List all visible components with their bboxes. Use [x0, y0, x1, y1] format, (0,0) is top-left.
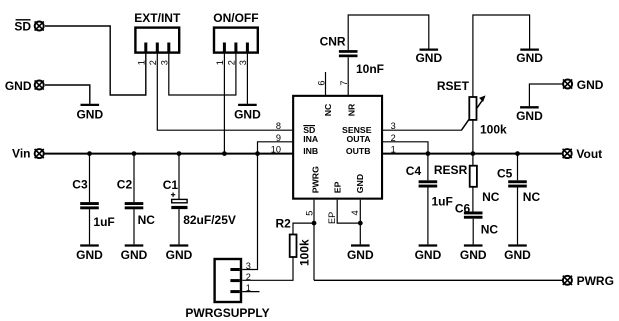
svg-text:2: 2	[391, 133, 396, 143]
resistor R2	[290, 235, 297, 258]
capacitor C2	[125, 202, 144, 205]
ground under C4	[419, 244, 438, 246]
svg-text:INB: INB	[303, 146, 318, 156]
svg-text:GND: GND	[121, 248, 148, 262]
svg-text:GND: GND	[460, 248, 487, 262]
wire C4 leads	[427, 154, 429, 245]
svg-text:5: 5	[304, 211, 314, 216]
junction Vin-C2	[132, 151, 137, 156]
svg-text:GND: GND	[355, 174, 365, 193]
svg-text:C4: C4	[406, 164, 422, 178]
ground under ON/OFF pin3	[238, 104, 257, 106]
junction Vin-ON/OFF pin1	[222, 151, 227, 156]
svg-text:C1: C1	[163, 178, 179, 192]
wire Vout net	[382, 153, 563, 155]
connector EXT/INT	[135, 28, 179, 53]
potentiometer RSET	[462, 99, 483, 130]
svg-text:1: 1	[136, 60, 146, 65]
terminal GND left	[35, 80, 44, 89]
ground under C2	[125, 244, 144, 246]
wire PWRGSUPPLY pin1 stub	[242, 291, 259, 293]
wire IC pin6 stub	[325, 72, 327, 95]
svg-text:INA: INA	[303, 134, 319, 144]
svg-text:PWRGSUPPLY: PWRGSUPPLY	[185, 306, 269, 320]
svg-text:EXT/INT: EXT/INT	[134, 11, 181, 25]
terminal Vout	[563, 149, 572, 158]
svg-text:GND: GND	[415, 51, 442, 65]
wire OUTA to Vout net	[382, 142, 428, 154]
wire CNR bottom to IC pin7	[347, 57, 349, 95]
svg-text:1: 1	[246, 283, 251, 293]
terminal PWRG	[563, 276, 572, 285]
svg-text:3: 3	[246, 261, 251, 271]
wire RSET bottom to Vout net	[472, 120, 474, 154]
svg-text:NC: NC	[323, 103, 333, 116]
svg-text:C2: C2	[117, 178, 133, 192]
ground GND-right terminal	[520, 106, 539, 108]
svg-text:3: 3	[238, 60, 248, 65]
svg-text:8: 8	[276, 121, 281, 131]
ground CNR	[420, 48, 439, 50]
capacitor C3	[80, 202, 99, 205]
wire C1 leads	[178, 154, 180, 245]
svg-text:NR: NR	[346, 103, 356, 116]
wire C6 lead	[472, 219, 474, 245]
IC U1	[293, 96, 382, 199]
ground under GND-left	[81, 104, 100, 106]
junction Vin-C3	[87, 151, 92, 156]
svg-text:7: 7	[339, 80, 349, 85]
junction Vout-RSET/RESR	[471, 151, 476, 156]
svg-text:C6: C6	[455, 202, 471, 216]
ground under C3	[80, 244, 99, 246]
terminal GND right	[563, 79, 572, 88]
svg-text:1uF: 1uF	[93, 215, 114, 229]
svg-text:CNR: CNR	[320, 35, 346, 49]
svg-text:NC: NC	[523, 190, 541, 204]
junction Vin-C1	[177, 151, 182, 156]
svg-text:GND: GND	[415, 248, 442, 262]
svg-text:3: 3	[391, 121, 396, 131]
svg-text:GND: GND	[76, 108, 103, 122]
ground under C5	[508, 244, 527, 246]
svg-text:PWRG: PWRG	[311, 166, 321, 193]
wire PWRG net	[314, 279, 563, 281]
ground under IC pin4	[351, 244, 370, 246]
wire IC pin5 to PWRG node	[313, 200, 315, 281]
svg-text:GND: GND	[347, 248, 374, 262]
svg-text:GND: GND	[504, 248, 531, 262]
svg-text:6: 6	[316, 80, 326, 85]
capacitor C5	[508, 180, 527, 183]
wire R2 bottom to PWRGSUPPLY pin2	[242, 257, 293, 280]
svg-text:R2: R2	[276, 216, 292, 230]
wire SD net	[45, 26, 146, 95]
resistor RESR	[470, 166, 477, 187]
wire Vin net	[44, 153, 293, 155]
wire RSET top to ground	[473, 15, 530, 97]
capacitor C4	[419, 180, 438, 183]
junction EP-pin4	[358, 221, 363, 226]
svg-text:GND: GND	[234, 108, 261, 122]
svg-text:GND: GND	[5, 79, 32, 93]
svg-text:ON/OFF: ON/OFF	[213, 11, 258, 25]
wire C5 leads	[517, 154, 519, 245]
ground under C1	[170, 244, 189, 246]
wire ON/OFF pin1 to Vin net	[223, 53, 225, 154]
svg-text:Vout: Vout	[576, 147, 602, 161]
capacitor C1 polarized	[172, 199, 187, 202]
wire IC pin4 to ground	[359, 200, 361, 245]
capacitor CNR	[339, 50, 358, 53]
svg-text:EP: EP	[332, 181, 342, 193]
svg-text:100k: 100k	[298, 239, 312, 266]
svg-text:NC: NC	[482, 190, 500, 204]
junction pin5-R2	[312, 221, 317, 226]
ground under C6	[464, 244, 483, 246]
terminal Vin	[35, 149, 44, 158]
svg-text:RESR: RESR	[434, 163, 468, 177]
wire EXT/INT pin2 to IC pin8	[157, 53, 292, 131]
wire SENSE to RSET wiper	[382, 100, 483, 131]
svg-text:2: 2	[148, 60, 158, 65]
svg-text:100k: 100k	[480, 123, 507, 137]
junction Vout-C5	[515, 151, 520, 156]
svg-text:2: 2	[246, 272, 251, 282]
wire EXT/INT pin3 to ON/OFF pin2	[169, 53, 236, 96]
svg-text:4: 4	[350, 210, 360, 215]
wire GND-left terminal to ground	[45, 85, 90, 104]
wire RESR leads	[472, 154, 474, 212]
svg-text:NC: NC	[138, 213, 156, 227]
svg-text:82uF/25V: 82uF/25V	[183, 213, 236, 227]
svg-text:GND: GND	[577, 78, 604, 92]
connector PWRGSUPPLY	[215, 259, 241, 302]
svg-text:9: 9	[276, 133, 281, 143]
wire C3 leads	[89, 154, 91, 245]
wire INA jog / PWRGSUPPLY pin3 riser	[242, 142, 293, 270]
svg-text:GND: GND	[166, 248, 193, 262]
wire CNR top to ground	[348, 15, 429, 50]
svg-text:1: 1	[215, 60, 225, 65]
svg-text:SD: SD	[14, 20, 31, 34]
svg-text:GND: GND	[516, 109, 543, 123]
connector ON/OFF	[214, 28, 258, 53]
wire R2 top link	[293, 223, 314, 234]
svg-text:3: 3	[159, 60, 169, 65]
svg-text:RSET: RSET	[437, 79, 470, 93]
wire GND-right terminal to ground	[529, 84, 563, 106]
wire EP link	[337, 200, 360, 223]
junction Vout-C4	[426, 151, 431, 156]
terminal SD	[35, 21, 44, 30]
wire ON/OFF pin3 to ground	[246, 53, 248, 104]
svg-text:PWRG: PWRG	[577, 274, 614, 288]
svg-text:10nF: 10nF	[356, 62, 384, 76]
svg-text:C3: C3	[72, 178, 88, 192]
svg-text:1uF: 1uF	[432, 195, 453, 209]
svg-text:10: 10	[271, 145, 281, 155]
ground RSET	[520, 48, 539, 50]
junction Vin-INA riser	[255, 151, 260, 156]
svg-text:2: 2	[227, 60, 237, 65]
wire C2 leads	[133, 154, 135, 245]
svg-text:GND: GND	[516, 51, 543, 65]
svg-text:EP: EP	[327, 212, 337, 224]
svg-text:GND: GND	[76, 248, 103, 262]
capacitor C6	[464, 212, 483, 215]
svg-text:OUTA: OUTA	[347, 134, 372, 144]
svg-text:NC: NC	[481, 223, 499, 237]
svg-text:1: 1	[391, 145, 396, 155]
svg-text:C5: C5	[497, 167, 513, 181]
svg-text:OUTB: OUTB	[346, 146, 371, 156]
svg-text:Vin: Vin	[12, 147, 30, 161]
